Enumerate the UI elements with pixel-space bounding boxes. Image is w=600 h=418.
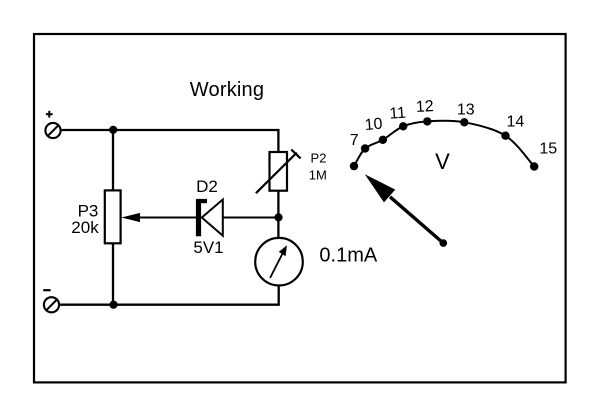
wire top from + terminal to P2 branch xyxy=(62,130,279,152)
svg-text:11: 11 xyxy=(389,105,407,123)
wire from P3 bottom to bottom rail xyxy=(112,243,114,304)
svg-text:13: 13 xyxy=(457,101,475,118)
trimmer potentiometer P2 body xyxy=(270,152,288,191)
zener diode D2 cathode bar xyxy=(196,199,207,236)
svg-text:10: 10 xyxy=(364,116,383,134)
junction bottom at P3 branch xyxy=(109,301,117,309)
potentiometer P3 body xyxy=(105,190,121,243)
wire from P2 bottom to meter xyxy=(277,191,279,238)
scale tick dot 7 xyxy=(361,144,369,152)
svg-text:20k: 20k xyxy=(71,218,99,237)
potentiometer P3 wiper arrow xyxy=(121,213,196,222)
meter M1 needle xyxy=(270,245,287,278)
scale tick dot 13 xyxy=(460,118,468,126)
svg-text:15: 15 xyxy=(539,140,557,157)
scale tick dot 10 xyxy=(379,136,387,144)
junction top at P3 branch xyxy=(109,126,117,134)
scale tick dot 12 xyxy=(423,117,431,125)
svg-text:Working: Working xyxy=(190,79,264,101)
terminal + (positive input) xyxy=(45,111,60,138)
scale tick dot (left end) xyxy=(350,162,358,170)
svg-text:0.1mA: 0.1mA xyxy=(319,244,377,266)
scale tick dot 11 xyxy=(399,122,407,130)
scale tick dot 14 xyxy=(501,132,509,140)
svg-text:7: 7 xyxy=(350,132,359,149)
svg-text:P2: P2 xyxy=(311,151,327,166)
meter pointer needle xyxy=(365,174,447,247)
meter scale arc xyxy=(354,121,534,167)
scale tick dot 15 (right end) xyxy=(530,162,538,170)
meter M1 body xyxy=(255,238,303,286)
svg-text:12: 12 xyxy=(415,98,434,116)
svg-text:5V1: 5V1 xyxy=(193,238,223,257)
terminal - (negative input) xyxy=(43,290,59,312)
zener diode D2 anode triangle xyxy=(202,200,223,236)
trimmer potentiometer P2 adjust arrow xyxy=(256,150,301,194)
wire from junction down to P3 xyxy=(112,130,114,190)
wire from D2 anode to P2 bottom junction xyxy=(223,217,279,219)
wire bottom rail xyxy=(60,287,279,305)
svg-text:1M: 1M xyxy=(309,167,327,182)
junction at D2 / P2 / meter node xyxy=(274,213,282,221)
svg-text:D2: D2 xyxy=(196,177,218,196)
svg-text:14: 14 xyxy=(507,113,525,130)
svg-text:V: V xyxy=(435,149,450,174)
